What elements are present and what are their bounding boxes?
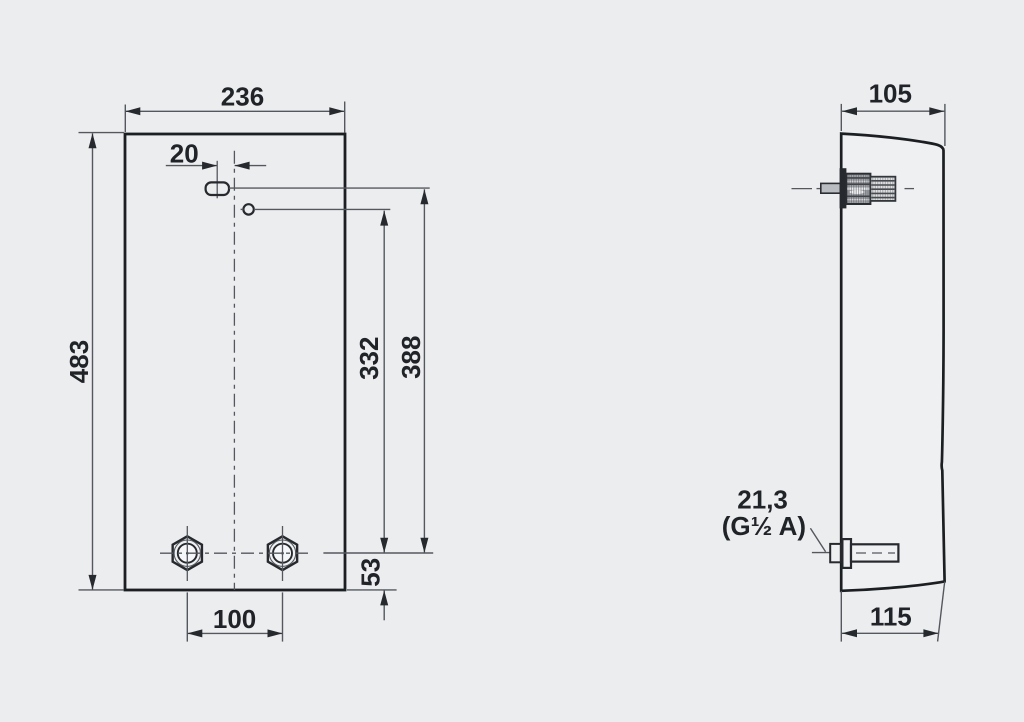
top fitting: threaded cylinder	[870, 177, 895, 201]
mounting slot	[206, 182, 229, 195]
dimension 53	[355, 558, 388, 620]
extension line at nut level right	[323, 552, 433, 554]
vertical dashed centerline of panel	[233, 151, 235, 590]
svg-text:21,3: 21,3	[737, 484, 788, 514]
dimension 388	[396, 189, 429, 553]
dimension 20	[166, 139, 266, 170]
bottom fitting: pipe dash centerline	[856, 552, 895, 554]
bottom fitting: hex nut side	[842, 539, 851, 568]
hex nut right	[268, 536, 297, 570]
dimension 100	[187, 592, 282, 641]
hex nut left	[173, 536, 202, 570]
nut vertical centerline left	[186, 526, 188, 581]
svg-text:20: 20	[170, 139, 199, 169]
nut vertical centerline right	[282, 526, 284, 581]
slot vertical line	[216, 161, 218, 199]
leader line	[810, 528, 825, 552]
nut horizontal dash-dot centerline	[160, 552, 311, 554]
top fitting: knurled cylinder	[846, 174, 870, 204]
reference line from slot (388 level)	[229, 187, 430, 189]
stub left of circle	[241, 208, 244, 210]
extension line at panel bottom right	[347, 589, 397, 591]
reference line from circle (332 level)	[254, 208, 390, 210]
svg-text:483: 483	[64, 340, 94, 383]
svg-text:(G½ A): (G½ A)	[722, 511, 806, 541]
top fitting: flange	[840, 168, 847, 208]
side view body	[841, 134, 944, 591]
svg-text:236: 236	[221, 81, 264, 111]
svg-text:100: 100	[213, 604, 256, 634]
svg-text:332: 332	[354, 337, 384, 380]
svg-text:105: 105	[869, 78, 912, 108]
svg-text:115: 115	[870, 601, 912, 631]
top fitting: pin	[821, 183, 841, 193]
dimension 115	[841, 582, 944, 642]
front view body panel	[125, 134, 345, 590]
bottom fitting: stub	[830, 544, 841, 562]
dimension 236	[125, 81, 344, 132]
bottom fitting: pipe	[851, 544, 898, 561]
dimension 483	[64, 133, 124, 590]
dimension 105	[841, 78, 945, 146]
dimension 332	[354, 211, 388, 553]
svg-text:53: 53	[355, 558, 385, 587]
svg-text:388: 388	[396, 336, 426, 379]
top fitting: dash centerline right	[905, 188, 915, 190]
top fitting: dash-dot centerline left	[792, 188, 813, 190]
small hole circle	[243, 204, 253, 214]
